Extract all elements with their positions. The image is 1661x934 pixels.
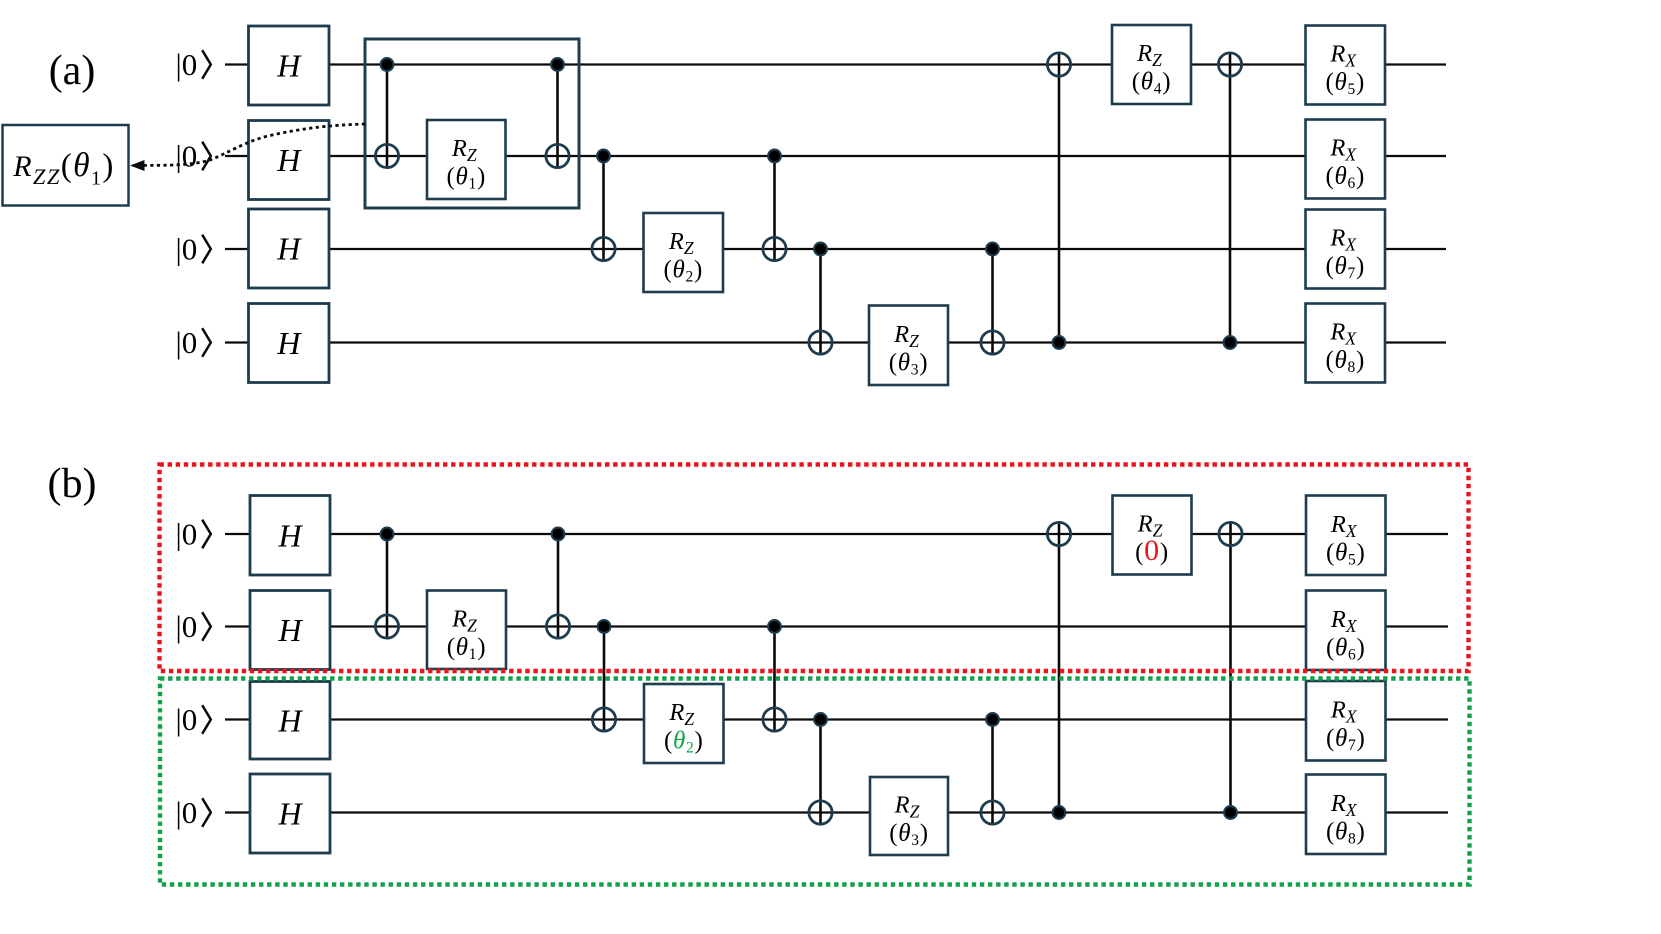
gate RZ(theta2) b3 green bbox=[644, 684, 724, 763]
wire b3 bbox=[225, 718, 1448, 720]
svg-text:(θ1): (θ1) bbox=[447, 634, 487, 663]
svg-text:(b): (b) bbox=[48, 461, 97, 507]
svg-text:(θ4): (θ4) bbox=[1132, 69, 1172, 98]
ket |0> qubit b1 bbox=[176, 517, 211, 552]
gate H qubit b2 bbox=[250, 591, 330, 670]
gate RZ(theta3) b4 bbox=[870, 777, 948, 855]
svg-text:H: H bbox=[277, 612, 303, 648]
CNOT b2->b3 first bbox=[592, 620, 615, 731]
svg-text:H: H bbox=[276, 325, 302, 361]
ket |0> qubit a3 bbox=[176, 232, 211, 267]
svg-text:|0: |0 bbox=[176, 325, 198, 360]
svg-text:(θ8): (θ8) bbox=[1326, 818, 1366, 847]
svg-text:(θ8): (θ8) bbox=[1326, 347, 1366, 376]
gate RZ(theta4) a1 bbox=[1112, 25, 1191, 104]
svg-text:(θ2): (θ2) bbox=[664, 257, 704, 286]
gate RX(theta7) a3 bbox=[1306, 210, 1386, 289]
CNOT b1->b2 second bbox=[546, 528, 569, 639]
gate H qubit a2 bbox=[249, 121, 330, 200]
RZZ(theta1) callout box bbox=[3, 125, 129, 206]
svg-text:H: H bbox=[277, 796, 303, 832]
wire a2 bbox=[225, 155, 1446, 157]
svg-text:H: H bbox=[277, 702, 303, 738]
gate RX(theta6) b2 bbox=[1306, 591, 1386, 671]
svg-text:(θ2): (θ2) bbox=[664, 728, 704, 757]
CNOT a1->a2 first bbox=[375, 58, 398, 168]
svg-text:|0: |0 bbox=[176, 232, 198, 267]
svg-text:(θ7): (θ7) bbox=[1326, 725, 1366, 754]
svg-text:(0): (0) bbox=[1135, 534, 1169, 567]
CNOT a2->a3 second bbox=[763, 150, 786, 261]
gate RZ(theta3) a4 bbox=[869, 306, 948, 386]
CNOT a4->a1 second bbox=[1218, 53, 1241, 349]
ket |0> qubit b3 bbox=[176, 702, 211, 737]
wire b1 bbox=[225, 533, 1448, 535]
CNOT a2->a3 first bbox=[592, 150, 615, 261]
wire a1 bbox=[225, 63, 1446, 65]
gate H qubit a3 bbox=[249, 209, 330, 288]
gate RZ(0) b1 red bbox=[1113, 496, 1192, 575]
svg-text:|0: |0 bbox=[176, 609, 198, 644]
svg-text:H: H bbox=[276, 48, 302, 84]
ket |0> qubit a1 bbox=[176, 47, 211, 82]
svg-text:(θ1): (θ1) bbox=[447, 164, 487, 193]
highlight box around RZZ block bbox=[365, 39, 579, 208]
ket |0> qubit a2 bbox=[176, 139, 211, 174]
ket |0> qubit b4 bbox=[176, 795, 211, 830]
wire b2 bbox=[225, 625, 1448, 627]
gate RX(theta5) b1 bbox=[1306, 496, 1386, 576]
gate H qubit b4 bbox=[250, 774, 330, 853]
svg-text:|0: |0 bbox=[176, 47, 198, 82]
ket |0> qubit b2 bbox=[176, 609, 211, 644]
svg-text:|0: |0 bbox=[176, 795, 198, 830]
gate RZ(theta1) b2 bbox=[427, 591, 506, 670]
CNOT b4->b1 second bbox=[1219, 522, 1242, 819]
CNOT b2->b3 second bbox=[763, 620, 786, 731]
gate RX(theta6) a2 bbox=[1306, 120, 1386, 199]
svg-text:H: H bbox=[277, 517, 303, 553]
gate RX(theta5) a1 bbox=[1306, 26, 1386, 105]
CNOT b4->b1 first bbox=[1047, 522, 1070, 819]
svg-text:(θ6): (θ6) bbox=[1326, 634, 1366, 663]
gate RX(theta8) a4 bbox=[1306, 304, 1386, 383]
gate H qubit a4 bbox=[249, 304, 330, 383]
wire b4 bbox=[225, 811, 1448, 813]
svg-text:(θ5): (θ5) bbox=[1326, 69, 1366, 98]
svg-text:(θ7): (θ7) bbox=[1326, 253, 1366, 282]
svg-text:|0: |0 bbox=[176, 139, 198, 174]
CNOT a4->a1 first bbox=[1047, 53, 1070, 349]
wire a3 bbox=[225, 248, 1446, 250]
gate RX(theta7) b3 bbox=[1306, 681, 1386, 761]
svg-text:(θ3): (θ3) bbox=[889, 820, 929, 849]
CNOT a3->a4 first bbox=[809, 243, 832, 355]
gate H qubit a1 bbox=[249, 26, 330, 105]
CNOT b3->b4 first bbox=[809, 713, 832, 824]
gate RZ(theta2) a3 bbox=[644, 213, 724, 292]
svg-text:(a): (a) bbox=[49, 48, 96, 94]
green dotted box machine 2 bbox=[160, 679, 1470, 885]
svg-text:(θ3): (θ3) bbox=[889, 349, 929, 378]
svg-text:H: H bbox=[276, 142, 302, 178]
svg-text:|0: |0 bbox=[176, 517, 198, 552]
svg-text:H: H bbox=[276, 231, 302, 267]
gate RX(theta8) b4 bbox=[1306, 775, 1386, 855]
gate H qubit b1 bbox=[250, 496, 330, 576]
dotted arrow from block to RZZ box bbox=[130, 124, 365, 171]
CNOT b3->b4 second bbox=[981, 713, 1004, 824]
svg-text:(θ6): (θ6) bbox=[1326, 163, 1366, 192]
red dotted box machine 1 bbox=[160, 465, 1469, 672]
gate H qubit b3 bbox=[250, 682, 330, 760]
wire a4 bbox=[225, 341, 1446, 343]
ket |0> qubit a4 bbox=[176, 325, 211, 360]
svg-text:(θ5): (θ5) bbox=[1326, 539, 1366, 568]
svg-text:|0: |0 bbox=[176, 702, 198, 737]
gate RZ(theta1) a2 bbox=[427, 120, 506, 199]
CNOT b1->b2 first bbox=[375, 528, 398, 639]
CNOT a3->a4 second bbox=[981, 243, 1004, 355]
CNOT a1->a2 second bbox=[546, 58, 569, 168]
